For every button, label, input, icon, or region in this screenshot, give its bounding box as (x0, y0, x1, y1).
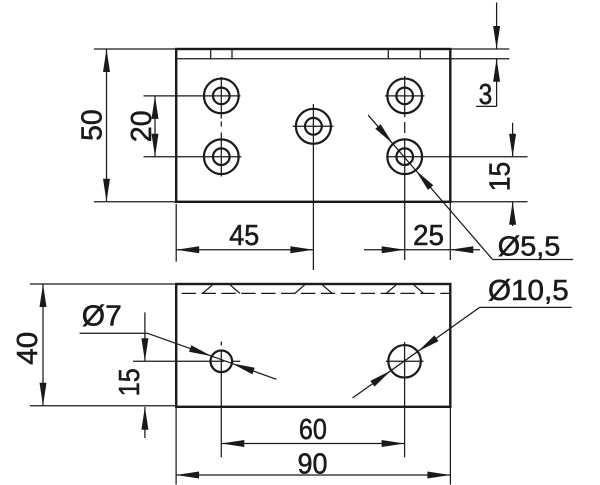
countersunk hole bottom-left outer (204, 139, 239, 174)
svg-text:90: 90 (298, 449, 328, 481)
dim 15 bottom upper arrow (144, 312, 146, 361)
top view inner edge line (3mm flange) (176, 58, 450, 60)
centerline row2 horizontal (144, 156, 242, 158)
dim 3 extension top (450, 48, 509, 50)
dim 15 bottom lower arrow (144, 407, 146, 438)
dim 40 extension bottom (30, 405, 176, 407)
dim 15 right extension bottom (450, 201, 527, 203)
countersunk hole top-left outer (204, 79, 239, 114)
countersink cone right left flank (386, 285, 396, 294)
countersunk hole top-left inner (213, 88, 230, 105)
dim 15 right upper arrow (512, 123, 514, 157)
dim 50 extension top (94, 48, 176, 50)
dim 25 line (405, 249, 451, 251)
svg-text:Ø7: Ø7 (82, 301, 122, 333)
countersunk hole bottom-right outer (387, 139, 422, 174)
dim 3 extension bottom (450, 58, 509, 60)
dim 90 line (176, 474, 450, 476)
svg-text:45: 45 (229, 220, 259, 252)
hole 10,5 centerline vertical / 60-dim extension (404, 342, 406, 457)
dim 50 line (106, 49, 108, 202)
countersink cone right right flank (414, 285, 424, 294)
countersunk hole center outer (296, 109, 331, 144)
centerline left column vertical (220, 77, 222, 119)
svg-text:3: 3 (479, 79, 493, 111)
countersink cone left right flank (230, 285, 240, 294)
hole 7 centerline vertical / 60-dim extension (220, 342, 222, 346)
hole edge tick right-b (419, 50, 421, 59)
svg-text:15: 15 (114, 368, 146, 396)
svg-text:Ø5,5: Ø5,5 (498, 230, 561, 261)
dim 45 extension left (175, 204, 177, 262)
svg-text:60: 60 (299, 414, 327, 446)
leader diameter 5,5 (368, 115, 492, 259)
svg-text:25: 25 (413, 220, 444, 252)
countersunk hole bottom-left inner (213, 148, 230, 165)
hole diameter 10,5 (388, 345, 421, 378)
dim 90 extension left (175, 407, 177, 485)
leader diameter 7 (80, 332, 148, 334)
countersink cone center left flank (295, 285, 305, 294)
countersunk hole top-right outer (387, 79, 422, 114)
countersink cone center right flank (322, 285, 332, 294)
countersunk hole center inner (305, 118, 322, 135)
dim 20 line (154, 96, 156, 157)
centerline center hole horizontal (293, 125, 334, 127)
hole edge tick left-a (210, 50, 212, 59)
countersunk hole bottom-right inner (396, 148, 413, 165)
centerline top-right hole horizontal (385, 95, 425, 97)
bottom view plate outline 90x40 (176, 284, 450, 407)
dim 50 extension bottom (94, 201, 176, 203)
dim 90 extension right (449, 407, 451, 485)
dim 45 line (176, 249, 313, 251)
leader diameter 10,5 (353, 307, 480, 398)
countersunk hole top-right inner (396, 88, 413, 105)
hole 7 centerline horizontal (133, 360, 224, 362)
dim 25 outside arrow right (450, 249, 480, 251)
hole edge tick right-a (387, 50, 389, 59)
svg-text:20: 20 (126, 111, 158, 143)
centerline row1 horizontal (144, 95, 241, 97)
svg-text:40: 40 (12, 332, 44, 365)
dim 3 lower arrow + leader (496, 59, 498, 107)
centerline right column vertical / 25-dim extension (404, 76, 406, 117)
svg-text:50: 50 (77, 109, 109, 141)
centerline center hole vertical / 45-dim extension (312, 104, 314, 270)
countersink cone left left flank (203, 285, 213, 294)
dim 40 line (42, 284, 44, 406)
dim 60 line (221, 443, 404, 445)
dim 40 extension top (30, 283, 176, 285)
svg-text:15: 15 (484, 162, 516, 192)
top view plate outline 90x50 (176, 49, 450, 202)
hole diameter 7 (211, 351, 233, 373)
hole 10,5 centerline horizontal (386, 360, 424, 362)
dim 15 right extension top (hole centerline) (387, 156, 528, 158)
dim 25 extension right (449, 203, 451, 260)
hole edge tick left-b (231, 50, 233, 59)
dim 15 right lower arrow (512, 202, 514, 226)
dim 25 outside arrow left (364, 249, 405, 251)
svg-text:Ø10,5: Ø10,5 (488, 275, 569, 307)
hidden line (plate underside) (182, 292, 451, 294)
dim 3 upper arrow line (496, 3, 498, 50)
